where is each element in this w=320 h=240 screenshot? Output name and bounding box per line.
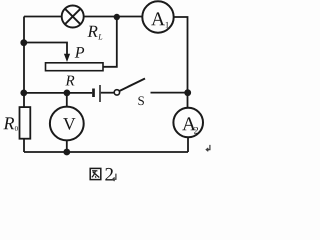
wire bottom <box>24 151 188 153</box>
left bus wire <box>23 17 25 108</box>
label R0 <box>3 117 17 130</box>
voltmeter V <box>50 107 84 141</box>
wire lamp to A1 <box>84 16 143 18</box>
label R <box>65 76 74 86</box>
wire top-left: left bus corner to lamp <box>24 16 62 18</box>
label RL <box>87 26 102 40</box>
label P <box>75 47 84 57</box>
wire A2 bottom stub <box>187 137 189 152</box>
ammeter A2 <box>173 108 203 138</box>
junction node below V <box>63 149 70 156</box>
label S <box>138 96 144 105</box>
junction node above V <box>64 90 71 97</box>
pilcrow return mark after caption <box>113 174 116 181</box>
wire V top stub <box>66 93 68 107</box>
wire R0 bottom stub <box>23 139 25 152</box>
wire pot right to junction below A1 <box>103 17 117 67</box>
wire A1 to top-right corner and right bus down <box>174 17 188 108</box>
wire battery to switch <box>101 92 114 94</box>
wiper arrow head <box>64 54 70 62</box>
battery positive plate (long thin) <box>99 85 101 102</box>
wire battery row left <box>24 92 92 94</box>
junction node below A1 <box>114 14 120 20</box>
wire V bottom stub <box>66 140 68 152</box>
switch S pivot <box>114 90 119 95</box>
pilcrow return mark right edge <box>206 145 210 151</box>
wire switch to right bus <box>151 92 188 94</box>
lamp RL (circle with X) <box>62 6 84 28</box>
potentiometer R body <box>46 63 104 71</box>
ammeter A1 <box>142 1 173 32</box>
junction node right bus / switch <box>184 89 191 96</box>
battery negative plate (short thick) <box>92 89 95 98</box>
wire wiper branch <box>24 43 67 55</box>
resistor R0 <box>20 107 31 139</box>
switch S blade <box>119 79 145 92</box>
caption glyph 图 <box>90 168 101 179</box>
caption text 2 <box>105 168 113 181</box>
junction node battery row left <box>20 90 27 97</box>
junction node wiper branch <box>20 39 27 46</box>
